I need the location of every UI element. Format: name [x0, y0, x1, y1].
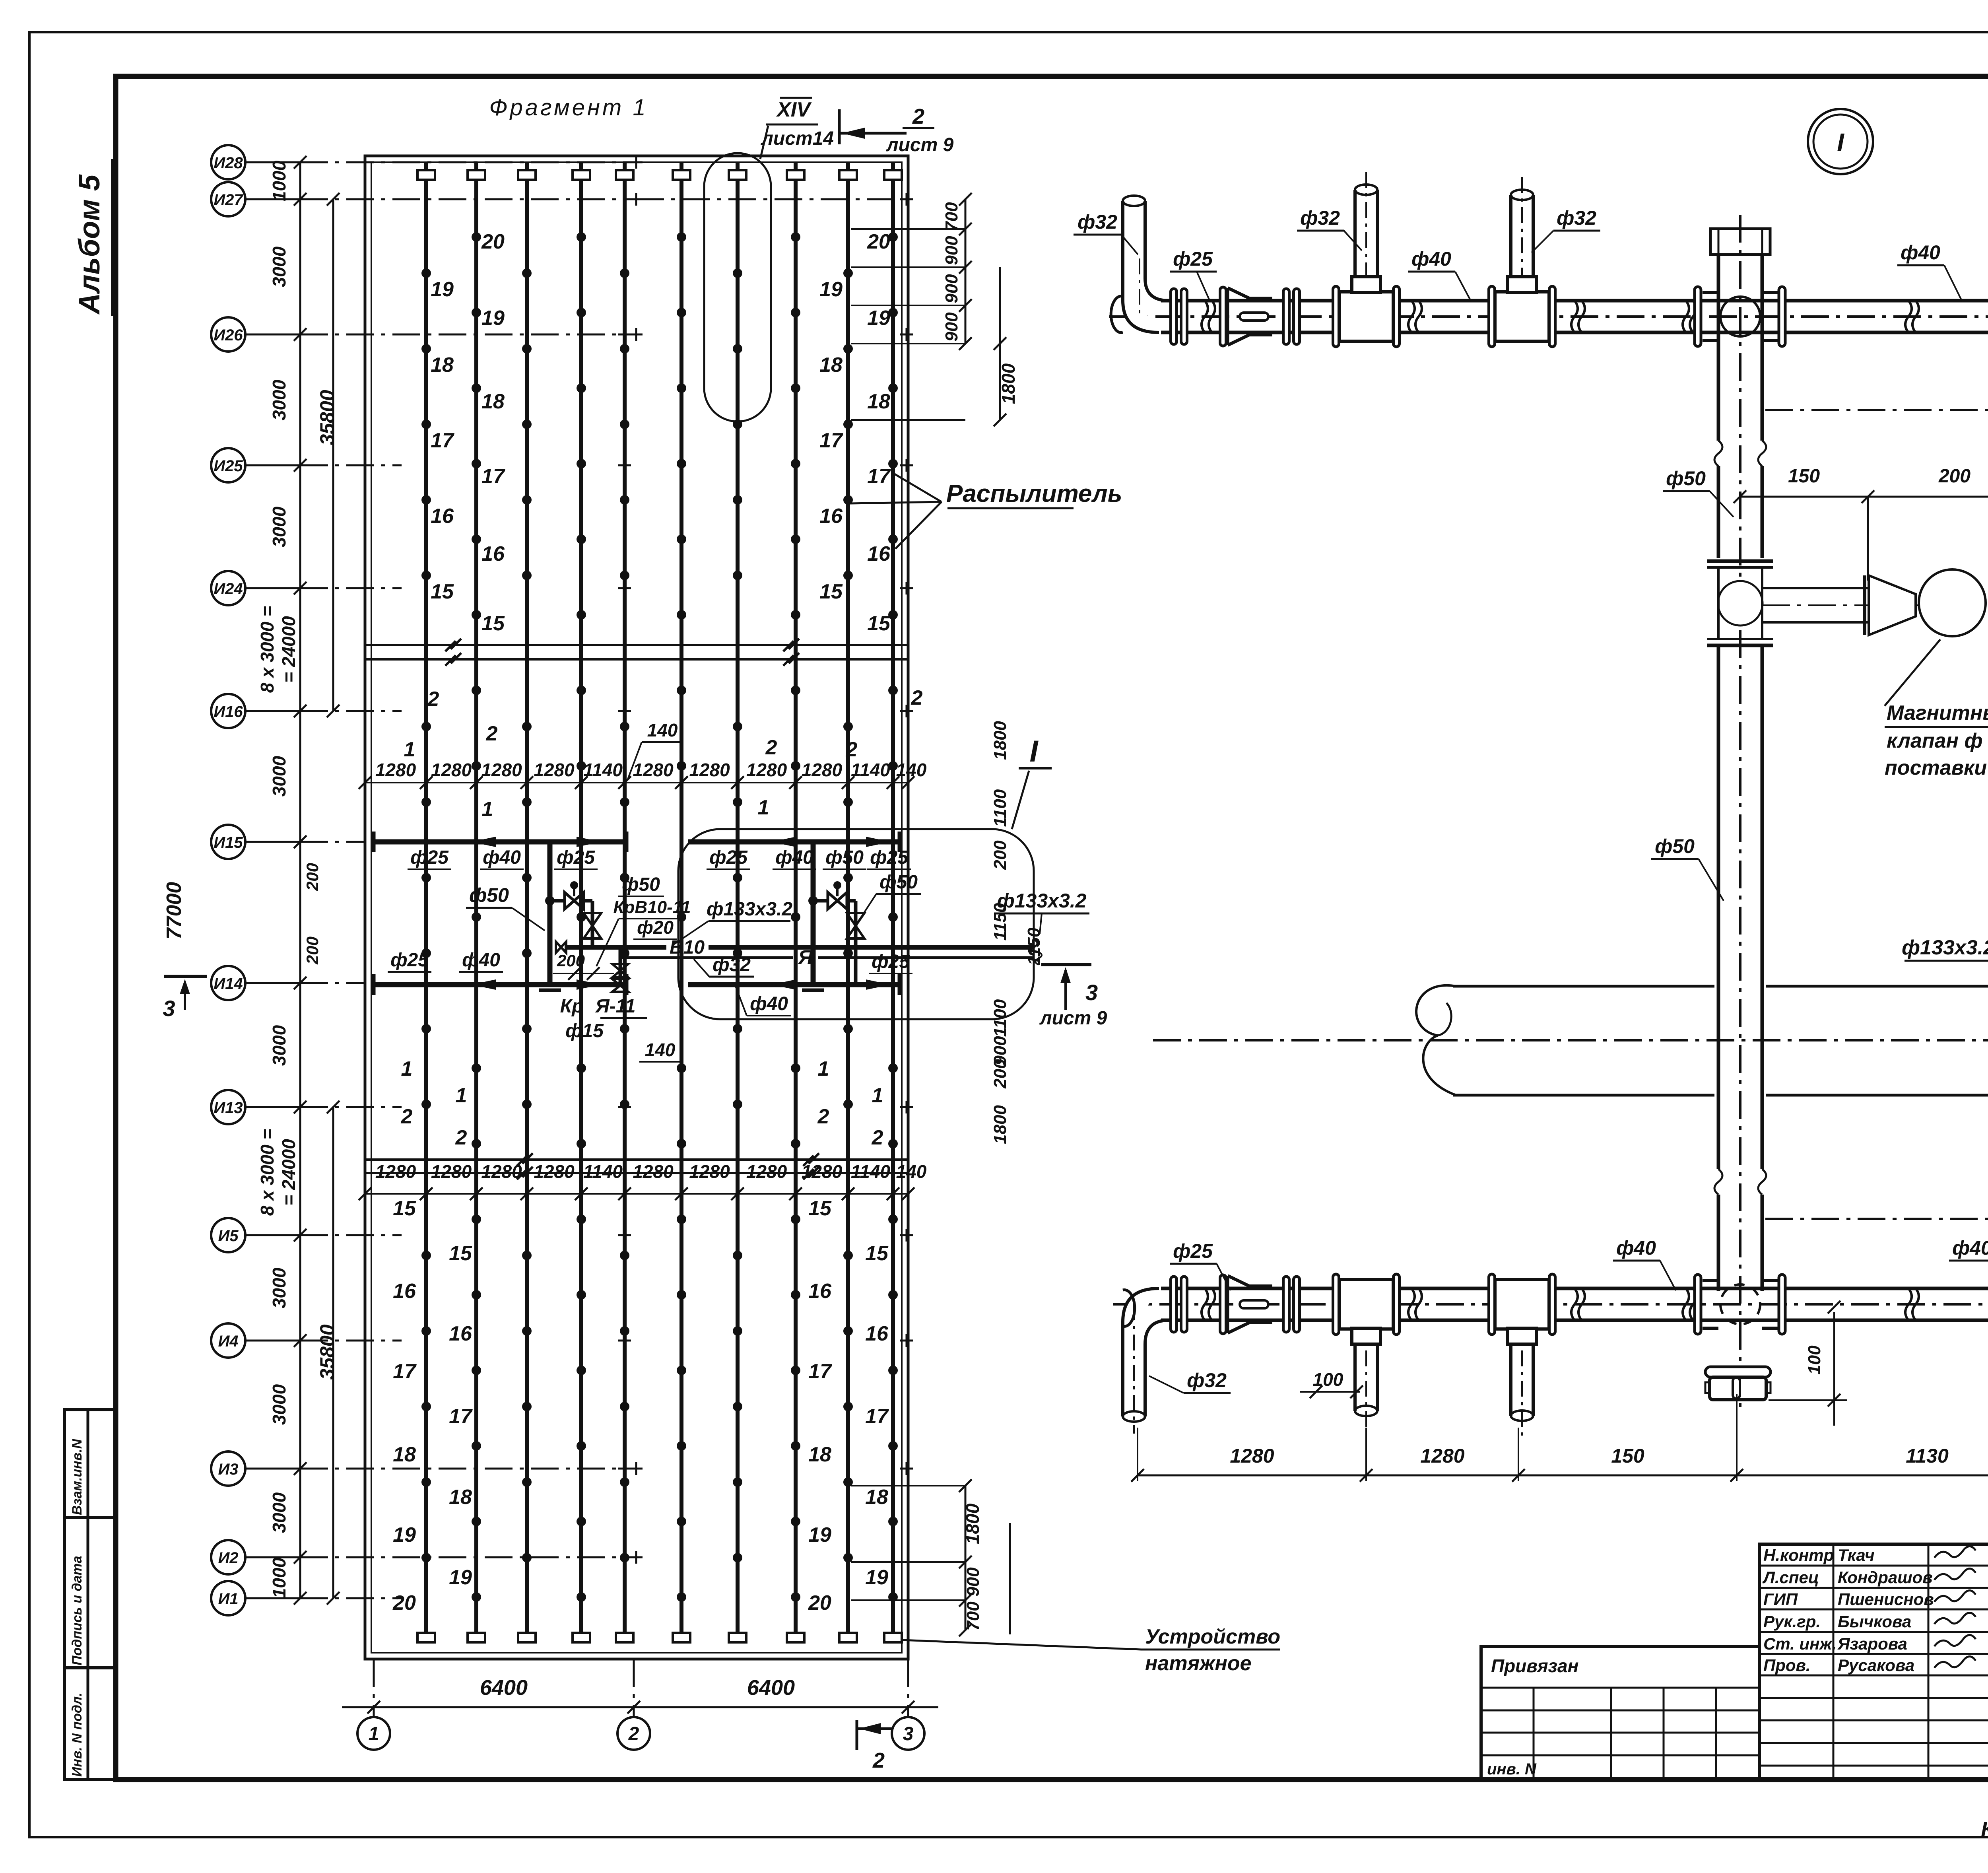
svg-text:2: 2: [486, 722, 498, 745]
svg-text:3000: 3000: [269, 756, 289, 797]
bottom left elbow: [1123, 1288, 1169, 1344]
svg-text:16: 16: [431, 505, 454, 528]
label ф25 left: [1170, 248, 1217, 300]
svg-text:16: 16: [393, 1280, 416, 1303]
label ф133x3.2 (right): [994, 890, 1089, 934]
column circle 2: [617, 1717, 650, 1750]
svg-text:ф40: ф40: [750, 993, 788, 1014]
svg-text:19: 19: [393, 1523, 416, 1547]
svg-text:16: 16: [865, 1322, 889, 1345]
node circle I (detail title): [1808, 109, 1873, 174]
irrigation manifold at И15: [374, 832, 899, 852]
label ф25 bottom left: [1170, 1240, 1231, 1290]
svg-text:6400: 6400: [480, 1676, 528, 1700]
axis circle И15: [211, 825, 365, 859]
svg-text:Русакова: Русакова: [1838, 1656, 1914, 1675]
bottom manifold centerline: [1113, 1303, 1988, 1306]
svg-text:1800: 1800: [962, 1503, 983, 1544]
bottom manifold pipe body: [1161, 1288, 1988, 1320]
sprinkler pipe line 9: [843, 162, 853, 1642]
svg-text:И25: И25: [214, 457, 243, 475]
pipe bottom tension hatch 8: [787, 1633, 804, 1642]
svg-text:1140: 1140: [583, 760, 623, 780]
svg-text:200: 200: [990, 840, 1010, 870]
manifold И15 pipe labels: [408, 847, 911, 869]
top manifold pipe body: [1161, 301, 1988, 332]
svg-text:Распылитель: Распылитель: [946, 480, 1122, 507]
pipe spacing dimension row upper: [359, 760, 927, 789]
label ф50 lower riser: [1651, 835, 1724, 901]
svg-text:20: 20: [808, 1591, 831, 1615]
svg-text:150: 150: [1611, 1445, 1644, 1467]
svg-text:17: 17: [819, 429, 843, 452]
svg-text:2: 2: [911, 686, 923, 709]
svg-text:18: 18: [481, 390, 505, 413]
svg-text:15: 15: [808, 1197, 832, 1220]
svg-text:200: 200: [1938, 466, 1971, 487]
svg-text:15: 15: [819, 580, 843, 603]
svg-text:ф32: ф32: [1557, 207, 1596, 229]
svg-text:900: 900: [963, 1567, 983, 1597]
sprinkler pipe line 5: [620, 162, 629, 1642]
stamp box Инв. N подл.: [64, 1668, 116, 1780]
svg-text:17: 17: [481, 465, 505, 488]
svg-text:ф50: ф50: [469, 884, 509, 906]
svg-text:17: 17: [865, 1405, 889, 1428]
central riser pipe lower: [1714, 645, 1766, 1291]
svg-text:1280: 1280: [689, 1161, 730, 1182]
main pipe centerline: [1153, 1039, 1988, 1041]
title Фрагмент 1: [489, 95, 648, 120]
svg-text:ф15: ф15: [565, 1020, 604, 1041]
sprinkler row numbers: [392, 230, 922, 1615]
axis И14 dash line (detail): [1765, 1218, 1988, 1220]
svg-text:ф32: ф32: [1077, 211, 1117, 233]
svg-text:Взам.инв.N: Взам.инв.N: [70, 1438, 85, 1515]
pipe top tension hatch 6: [673, 170, 690, 180]
feed pipe Я: [620, 946, 1042, 968]
svg-text:2: 2: [912, 105, 924, 128]
svg-text:8 x 3000 =: 8 x 3000 =: [257, 1129, 278, 1216]
svg-text:20: 20: [867, 230, 890, 253]
column circle 3: [892, 1717, 924, 1750]
svg-text:1140: 1140: [851, 1161, 890, 1182]
svg-text:17: 17: [808, 1360, 832, 1383]
irrigation manifold at И14: [374, 974, 899, 995]
sprinkler pipe line 8: [791, 162, 800, 1642]
pipe top tension hatch 1: [417, 170, 435, 180]
svg-text:1280: 1280: [802, 1161, 843, 1182]
svg-text:1000: 1000: [269, 160, 289, 201]
svg-text:ф40: ф40: [1411, 248, 1451, 270]
svg-text:1280: 1280: [481, 760, 522, 780]
top riser 1 ф32 (elbow): [1123, 196, 1145, 278]
central riser pipe upper: [1714, 255, 1766, 558]
svg-text:клапан ф 50: клапан ф 50: [1887, 729, 1988, 752]
svg-text:3000: 3000: [269, 1492, 289, 1533]
svg-text:1800: 1800: [990, 721, 1010, 760]
top joint 1: [1408, 301, 1422, 332]
svg-text:17: 17: [393, 1360, 417, 1383]
svg-text:И14: И14: [214, 975, 243, 993]
svg-text:1: 1: [482, 798, 493, 821]
svg-text:1000: 1000: [269, 1557, 289, 1598]
svg-text:ф32: ф32: [1300, 207, 1340, 229]
left dimension labels: [163, 160, 338, 1598]
svg-text:ф50: ф50: [622, 874, 660, 895]
svg-text:1: 1: [456, 1084, 467, 1107]
pipe bottom tension hatch 9: [839, 1633, 857, 1642]
svg-text:И15: И15: [214, 834, 243, 851]
svg-text:ф133х3.2: ф133х3.2: [997, 890, 1087, 912]
pipe bottom tension hatch 3: [518, 1633, 536, 1642]
svg-text:Устройство: Устройство: [1145, 1625, 1280, 1648]
svg-text:1280: 1280: [1230, 1445, 1274, 1467]
svg-text:19: 19: [449, 1566, 472, 1589]
valve Кр В10-11 cluster left: [550, 881, 628, 992]
svg-text:Копировал: Быстрова: Копировал: Быстрова: [1981, 1817, 1988, 1841]
greenhouse plan outer border (double): [365, 156, 908, 1659]
svg-text:19: 19: [867, 307, 890, 330]
plan middle right dims: [990, 721, 1044, 1144]
pipe bottom tension hatch 10: [884, 1633, 902, 1642]
main pipe left end loop break: [1416, 985, 1456, 1095]
svg-text:3000: 3000: [269, 1384, 289, 1425]
top manifold centerline: [1109, 315, 1988, 318]
svg-text:= 24000: = 24000: [278, 1139, 299, 1206]
svg-text:ф32: ф32: [1187, 1369, 1227, 1391]
bottom union barrel A: [1202, 1275, 1272, 1334]
label ф32 riser2: [1297, 207, 1362, 251]
svg-text:15: 15: [865, 1242, 889, 1265]
svg-text:77000: 77000: [163, 882, 186, 940]
bottom flange pair A: [1171, 1277, 1187, 1332]
svg-text:1280: 1280: [746, 1161, 787, 1182]
section flag 2 bottom: [857, 1720, 893, 1772]
label Копировал Быстрова: [1981, 1817, 1988, 1841]
pipe bottom tension hatch 4: [573, 1633, 590, 1642]
svg-text:ф133х3.2: ф133х3.2: [707, 899, 792, 920]
svg-text:I: I: [1837, 128, 1844, 157]
label ф40 left: [1408, 248, 1471, 301]
svg-text:1280: 1280: [689, 760, 730, 780]
pipe bottom tension hatch 6: [673, 1633, 690, 1642]
svg-text:ф25: ф25: [390, 950, 429, 971]
feed pipe В10: [556, 937, 1037, 958]
svg-text:3000: 3000: [269, 1025, 289, 1066]
svg-text:18: 18: [449, 1486, 472, 1509]
personnel rows text: [1762, 1546, 1988, 1675]
plan grid cross marks: [618, 328, 913, 1475]
svg-text:ф32: ф32: [712, 954, 751, 975]
svg-text:1: 1: [401, 1057, 413, 1080]
privyazan table: [1481, 1646, 1759, 1780]
section marker 3 / лист 9 (right): [1039, 965, 1107, 1029]
label Устройство натяжное: [902, 1625, 1280, 1675]
feeder riser right ф50: [802, 842, 824, 990]
axis circle И27: [211, 182, 913, 216]
bottom cross tee collar: [1695, 1275, 1785, 1334]
svg-text:Привязан: Привязан: [1491, 1655, 1578, 1676]
pipe bottom tension hatch 2: [468, 1633, 485, 1642]
svg-text:3: 3: [1085, 980, 1098, 1005]
label Распылитель: [850, 474, 1122, 549]
svg-text:1280: 1280: [802, 760, 843, 780]
top dim 150/200/150: [1734, 466, 1988, 581]
axis circle И28: [211, 145, 643, 179]
svg-text:1150: 1150: [1024, 927, 1044, 965]
svg-text:18: 18: [393, 1443, 416, 1466]
svg-text:19: 19: [819, 278, 843, 301]
svg-text:Кр: Кр: [560, 996, 584, 1017]
section flag 2 / лист9: [839, 105, 954, 155]
sprinkler pipe line 6: [677, 162, 686, 1642]
svg-text:ф40: ф40: [483, 847, 521, 868]
svg-text:ф25: ф25: [870, 847, 909, 868]
svg-text:1800: 1800: [998, 363, 1019, 404]
axis circle И13: [211, 1090, 402, 1124]
label ф32 riser3: [1532, 207, 1600, 253]
section marker 3 left of И14: [163, 976, 207, 1021]
bottom joint 1: [1408, 1288, 1422, 1320]
svg-text:20: 20: [392, 1591, 416, 1615]
pipe top tension hatch 8: [787, 170, 804, 180]
top flange pair B: [1283, 289, 1300, 344]
svg-text:1: 1: [404, 738, 415, 761]
label ф32 riser1: [1074, 211, 1138, 255]
top tee riser 2 ф32: [1333, 172, 1400, 347]
svg-text:16: 16: [819, 505, 843, 528]
svg-text:2: 2: [846, 738, 858, 761]
svg-text:Магнитный: Магнитный: [1887, 701, 1988, 725]
svg-text:Пров.: Пров.: [1763, 1656, 1811, 1675]
svg-text:15: 15: [393, 1197, 416, 1220]
svg-text:1: 1: [369, 1723, 379, 1745]
pipe bottom tension hatch 5: [616, 1633, 633, 1642]
svg-text:Я-11: Я-11: [595, 996, 636, 1017]
axis circle И14: [211, 966, 365, 1000]
label ф32 bottom left: [1149, 1369, 1231, 1393]
svg-text:Язарова: Язарова: [1837, 1634, 1907, 1653]
svg-text:18: 18: [808, 1443, 831, 1466]
label ф50 riser mid: [1663, 467, 1734, 517]
svg-text:1280: 1280: [431, 1161, 472, 1182]
top left elbow: [1111, 258, 1169, 332]
svg-text:ф40: ф40: [1901, 241, 1940, 264]
svg-text:17: 17: [867, 465, 891, 488]
svg-text:3000: 3000: [269, 506, 289, 547]
axis circle И2: [211, 1540, 643, 1574]
stamp box Подпись и дата: [64, 1517, 116, 1668]
bottom riser 1 ф32 (elbow): [1123, 1304, 1145, 1434]
svg-text:2: 2: [817, 1105, 829, 1128]
svg-text:35800: 35800: [316, 390, 338, 445]
svg-text:200: 200: [990, 1059, 1010, 1089]
svg-text:Бычкова: Бычкова: [1838, 1612, 1911, 1631]
pipe bottom tension hatch 7: [729, 1633, 746, 1642]
branch pipe to magnetic valve: [1762, 588, 1988, 622]
svg-text:8 x 3000 =: 8 x 3000 =: [257, 606, 278, 693]
svg-text:16: 16: [449, 1322, 472, 1345]
svg-text:900: 900: [942, 236, 961, 265]
pipe top tension hatch 3: [518, 170, 536, 180]
svg-text:17: 17: [449, 1405, 473, 1428]
svg-text:19: 19: [431, 278, 454, 301]
central riser centerline: [1739, 215, 1741, 1408]
svg-text:ф25: ф25: [410, 847, 449, 868]
svg-text:1140: 1140: [583, 1161, 623, 1182]
svg-text:лист14: лист14: [761, 128, 834, 149]
svg-text:2: 2: [872, 1126, 883, 1149]
svg-text:Альбом 5: Альбом 5: [73, 174, 106, 315]
svg-text:лист 9: лист 9: [886, 134, 954, 155]
svg-text:3000: 3000: [269, 379, 289, 420]
sprinkler pipe line 2: [472, 162, 481, 1642]
pipe top tension hatch 5: [616, 170, 633, 180]
svg-text:В10: В10: [670, 937, 705, 958]
svg-text:1280: 1280: [534, 1161, 575, 1182]
svg-text:3000: 3000: [269, 246, 289, 287]
top union barrel A: [1202, 287, 1272, 346]
bottom joint 2: [1571, 1288, 1585, 1320]
pipe top tension hatch 2: [468, 170, 485, 180]
svg-text:19: 19: [865, 1566, 888, 1589]
svg-text:ф25: ф25: [872, 951, 910, 972]
svg-text:18: 18: [867, 390, 890, 413]
central riser hex cap: [1710, 229, 1770, 255]
svg-text:1100: 1100: [990, 999, 1010, 1037]
svg-text:1280: 1280: [1420, 1445, 1464, 1467]
label ф133x3.2 (detail): [1902, 936, 1988, 999]
label ф40 right: [1897, 241, 1962, 301]
union coupling on riser: [1707, 561, 1773, 645]
callout label XIV / лист14: [761, 98, 834, 149]
svg-text:Кондрашов: Кондрашов: [1838, 1568, 1933, 1587]
svg-text:15: 15: [867, 612, 891, 635]
svg-text:ф40: ф40: [1952, 1237, 1988, 1259]
svg-text:ф50: ф50: [879, 872, 918, 893]
pipe top tension hatch 10: [884, 170, 902, 180]
bottom cross circle (dashed): [1720, 1284, 1760, 1324]
svg-text:ф50: ф50: [825, 847, 864, 868]
svg-text:2: 2: [401, 1105, 413, 1128]
svg-text:И2: И2: [218, 1549, 238, 1567]
plan break band upper: [365, 639, 908, 666]
svg-text:Пшениснов: Пшениснов: [1838, 1590, 1934, 1609]
svg-text:I: I: [1029, 734, 1039, 768]
svg-text:900: 900: [942, 312, 961, 342]
svg-text:1280: 1280: [431, 760, 472, 780]
svg-text:19: 19: [481, 307, 505, 330]
bottom tee riser 2: [1333, 1274, 1400, 1431]
magnetic valve reducer left: [1865, 575, 1916, 635]
svg-text:18: 18: [819, 354, 843, 377]
svg-text:140: 140: [896, 760, 927, 780]
axis circle И24: [211, 571, 402, 605]
svg-text:Фрагмент 1: Фрагмент 1: [489, 95, 648, 120]
svg-text:1140: 1140: [851, 760, 890, 780]
svg-text:И16: И16: [214, 703, 243, 721]
dim 100 center: [1769, 1301, 1847, 1426]
svg-text:ф25: ф25: [709, 847, 748, 868]
manifold И14 pipe labels: [388, 950, 912, 1016]
svg-text:1100: 1100: [990, 789, 1010, 827]
svg-text:1280: 1280: [481, 1161, 522, 1182]
svg-text:3: 3: [903, 1723, 914, 1745]
svg-text:20: 20: [481, 230, 505, 253]
svg-text:19: 19: [808, 1523, 831, 1547]
svg-text:15: 15: [431, 580, 454, 603]
personnel table grid: [1759, 1544, 1988, 1780]
svg-text:= 24000: = 24000: [278, 616, 299, 683]
bottom dimension 6400/6400: [342, 1676, 938, 1714]
central riser cross tee collar: [1695, 287, 1785, 346]
svg-text:Рук.гр.: Рук.гр.: [1763, 1612, 1821, 1631]
axis circle И4: [211, 1323, 402, 1358]
callout oval лист 14: [704, 126, 771, 422]
svg-text:натяжное: натяжное: [1145, 1652, 1252, 1675]
svg-text:И1: И1: [218, 1590, 238, 1608]
album label Альбом 5: [73, 159, 112, 316]
pipe spacing dimension row lower: [359, 1161, 927, 1200]
svg-text:200: 200: [303, 936, 322, 965]
svg-text:2: 2: [765, 736, 777, 759]
main pipe ф133x3.2 body: [1453, 986, 1988, 1095]
bottom tee riser 3: [1489, 1274, 1555, 1436]
svg-text:3: 3: [163, 996, 175, 1021]
central riser bottom cap: [1705, 1367, 1771, 1400]
svg-text:И28: И28: [214, 154, 243, 172]
pipe bottom tension hatch 1: [417, 1633, 435, 1642]
svg-text:ф25: ф25: [557, 847, 595, 868]
svg-text:2: 2: [628, 1723, 639, 1745]
svg-text:2: 2: [455, 1126, 467, 1149]
svg-text:1280: 1280: [534, 760, 575, 780]
svg-text:ф133х3.2: ф133х3.2: [1902, 936, 1988, 959]
sprinkler pipe line 1: [421, 162, 431, 1642]
svg-text:1280: 1280: [375, 1161, 416, 1182]
svg-text:3000: 3000: [269, 1267, 289, 1308]
label Магнитный клапан ф50 поставки ГДР: [1885, 639, 1988, 779]
svg-text:Я: Я: [798, 946, 813, 968]
pipe top tension hatch 4: [573, 170, 590, 180]
svg-text:150: 150: [1788, 466, 1820, 487]
svg-text:Подпись и дата: Подпись и дата: [70, 1556, 85, 1665]
svg-text:200: 200: [303, 863, 322, 891]
svg-text:лист 9: лист 9: [1039, 1008, 1107, 1029]
svg-text:700: 700: [963, 1601, 983, 1631]
svg-text:ф25: ф25: [1173, 248, 1213, 270]
svg-text:Н.контр: Н.контр: [1763, 1546, 1834, 1564]
svg-text:1280: 1280: [633, 1161, 674, 1182]
valve cluster labels: [466, 720, 691, 1062]
svg-text:900: 900: [942, 274, 961, 303]
bottom joint 4: [1905, 1288, 1919, 1320]
label ф40 bottom left: [1613, 1237, 1676, 1290]
svg-text:16: 16: [808, 1280, 832, 1303]
svg-text:15: 15: [449, 1242, 472, 1265]
svg-text:2: 2: [427, 688, 439, 711]
pipe top tension hatch 7: [729, 170, 746, 180]
central riser cross circle: [1720, 297, 1760, 336]
node I boundary outline: [678, 771, 1034, 1019]
svg-text:ф40: ф40: [775, 847, 813, 868]
svg-text:700: 700: [942, 202, 961, 231]
axis circle И25: [211, 448, 402, 482]
svg-text:1280: 1280: [633, 760, 674, 780]
svg-text:35800: 35800: [316, 1324, 338, 1379]
bottom column axis lines: [374, 1659, 908, 1717]
